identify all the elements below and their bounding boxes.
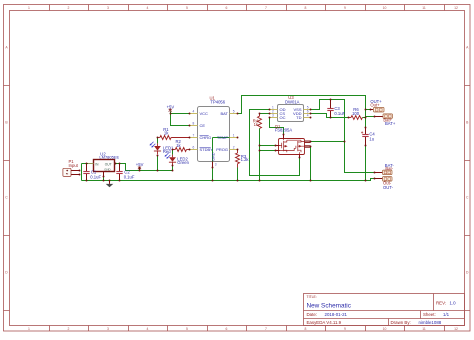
svg-text:Red: Red [163, 149, 171, 154]
svg-text:4: 4 [193, 110, 195, 114]
svg-text:10: 10 [383, 6, 387, 10]
svg-text:PROG: PROG [216, 147, 228, 152]
svg-text:1: 1 [233, 134, 235, 138]
svg-text:5: 5 [186, 327, 188, 331]
svg-text:Out+: Out+ [370, 103, 380, 108]
svg-text:6: 6 [193, 146, 195, 150]
svg-text:100: 100 [352, 111, 360, 116]
svg-text:Input: Input [69, 163, 79, 168]
svg-text:10: 10 [383, 327, 387, 331]
svg-text:11: 11 [422, 6, 426, 10]
svg-text:EasyEDA V4.11.9: EasyEDA V4.11.9 [307, 320, 342, 325]
svg-text:8: 8 [305, 327, 307, 331]
svg-text:+5V: +5V [167, 105, 175, 110]
svg-text:11: 11 [422, 327, 426, 331]
svg-text:U1: U1 [210, 96, 216, 101]
svg-text:4: 4 [147, 6, 149, 10]
svg-text:Q1: Q1 [275, 124, 281, 129]
svg-text:1.0: 1.0 [450, 301, 457, 306]
svg-text:1: 1 [28, 6, 30, 10]
svg-text:4: 4 [307, 114, 309, 118]
svg-text:Bat+: Bat+ [383, 118, 392, 123]
svg-text:2: 2 [68, 6, 70, 10]
svg-text:1: 1 [28, 327, 30, 331]
svg-text:7: 7 [265, 327, 267, 331]
svg-text:1.2k: 1.2k [241, 157, 250, 162]
svg-text:VCC: VCC [200, 111, 209, 116]
svg-text:12: 12 [454, 6, 458, 10]
svg-text:BAT: BAT [221, 111, 229, 116]
svg-text:TD: TD [296, 115, 301, 120]
svg-text:4: 4 [147, 327, 149, 331]
svg-text:5: 5 [186, 6, 188, 10]
svg-text:LM7805EE: LM7805EE [99, 155, 119, 160]
svg-text:0.1uF: 0.1uF [90, 174, 101, 179]
svg-text:Drawn By:: Drawn By: [391, 320, 411, 325]
svg-text:5: 5 [233, 110, 235, 114]
svg-text:Bat-: Bat- [385, 166, 393, 171]
svg-text:6: 6 [226, 327, 228, 331]
svg-text:2: 2 [68, 327, 70, 331]
svg-text:6: 6 [226, 6, 228, 10]
svg-text:8: 8 [193, 122, 195, 126]
svg-text:2: 2 [233, 146, 235, 150]
svg-text:Date:: Date: [307, 312, 318, 317]
svg-text:TITLE:: TITLE: [307, 295, 317, 299]
svg-text:nimble1088: nimble1088 [419, 320, 442, 325]
svg-text:2018-01-21: 2018-01-21 [325, 312, 348, 317]
svg-text:Green: Green [177, 160, 189, 165]
svg-text:CE: CE [200, 123, 206, 128]
svg-text:0.1uF: 0.1uF [124, 174, 135, 179]
svg-text:Sheet:: Sheet: [423, 312, 436, 317]
svg-text:GND: GND [104, 168, 110, 172]
svg-text:TEMP: TEMP [217, 135, 228, 140]
svg-text:0.1uF: 0.1uF [334, 111, 345, 116]
svg-text:8: 8 [305, 6, 307, 10]
svg-text:U3: U3 [288, 95, 294, 100]
svg-text:12: 12 [454, 327, 458, 331]
svg-text:3: 3 [107, 6, 109, 10]
svg-text:3: 3 [272, 114, 274, 118]
svg-text:7: 7 [193, 134, 195, 138]
svg-text:REV:: REV: [436, 301, 446, 306]
svg-text:+5V: +5V [136, 162, 144, 167]
svg-text:New Schematic: New Schematic [307, 303, 352, 310]
svg-text:9: 9 [344, 327, 346, 331]
svg-text:1/1: 1/1 [443, 312, 450, 317]
svg-text:Out-: Out- [383, 181, 392, 186]
svg-text:GND: GND [211, 152, 215, 161]
svg-text:OC: OC [280, 115, 286, 120]
svg-text:1u: 1u [369, 137, 374, 142]
svg-text:OUT: OUT [105, 162, 112, 166]
svg-text:3: 3 [107, 327, 109, 331]
svg-text:3: 3 [215, 162, 217, 166]
svg-text:7: 7 [265, 6, 267, 10]
svg-text:9: 9 [344, 6, 346, 10]
